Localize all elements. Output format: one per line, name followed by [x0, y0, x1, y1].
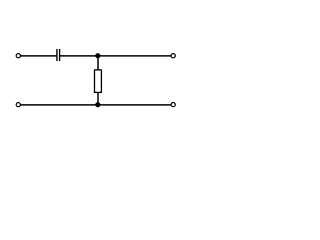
- node A junction dot (top): [95, 53, 100, 58]
- wire vertical upper segment (node A to resistor top): [97, 56, 99, 70]
- wire vertical lower segment (resistor bottom to node B): [97, 92, 99, 105]
- wire bottom segment (return rail): [20, 104, 171, 106]
- wire top-right segment (capacitor to output terminal through node A): [60, 55, 171, 57]
- wire top-left segment (input to capacitor): [20, 55, 56, 57]
- capacitor C1 left plate: [56, 49, 58, 61]
- capacitor C1 right plate: [59, 49, 61, 61]
- terminal bottom-right (output -): [171, 103, 175, 107]
- terminal top-left (input +): [16, 54, 20, 58]
- terminal bottom-left (input -): [16, 103, 20, 107]
- node B junction dot (bottom): [95, 102, 100, 107]
- resistor R1 (box symbol): [95, 70, 102, 93]
- terminal top-right (output +): [171, 54, 175, 58]
